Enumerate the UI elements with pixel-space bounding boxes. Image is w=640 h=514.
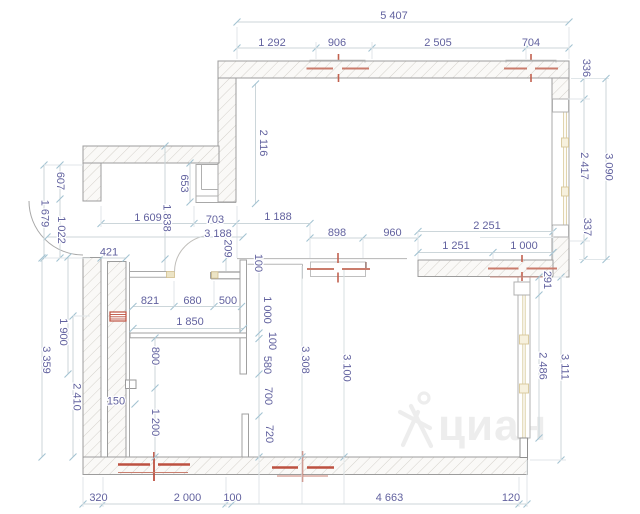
dim line 1850	[130, 325, 248, 332]
window right upper sill bottom	[553, 225, 569, 237]
dim line 2410	[70, 313, 91, 461]
svg-text:898: 898	[328, 227, 346, 239]
red radiator panel	[110, 312, 126, 321]
niche in wall	[196, 165, 218, 203]
partition corridor-bedroom left part	[130, 271, 167, 273]
svg-text:2 410: 2 410	[71, 383, 83, 411]
dim line 3308	[299, 266, 306, 504]
svg-text:580: 580	[261, 356, 273, 374]
svg-text:421: 421	[100, 247, 118, 259]
wall left upper pier	[83, 163, 101, 201]
wall left lower inner shaft	[108, 262, 127, 458]
wall right lower segment	[552, 237, 569, 277]
dim line 3100	[341, 270, 348, 504]
svg-text:337: 337	[581, 218, 593, 236]
red window marker band A	[307, 253, 370, 283]
window lower right glazing	[522, 295, 524, 438]
svg-text:2 116: 2 116	[257, 130, 269, 157]
svg-text:720: 720	[263, 425, 275, 443]
svg-text:1 838: 1 838	[161, 204, 173, 232]
svg-text:5 407: 5 407	[380, 10, 408, 22]
wall pilaster box	[126, 380, 137, 389]
red window marker top B	[504, 54, 558, 82]
dim line bottom chain 320/2000/100/4663/120	[80, 460, 531, 508]
svg-text:960: 960	[383, 227, 401, 239]
door frame right tan	[212, 272, 219, 278]
svg-text:800: 800	[149, 347, 161, 365]
wall top exterior	[218, 61, 569, 78]
svg-text:1 022: 1 022	[55, 216, 67, 244]
wall right upper corner	[552, 78, 569, 99]
svg-text:3 188: 3 188	[204, 228, 232, 240]
dim line 3188	[44, 234, 247, 241]
wall band balcony hatched	[418, 260, 553, 277]
dim line right 3090	[603, 75, 610, 263]
wall left lower outer	[83, 258, 101, 458]
svg-text:3 308: 3 308	[299, 346, 311, 374]
partition vertical kitchen	[240, 260, 247, 374]
band top edge line	[237, 258, 407, 260]
svg-text:3 359: 3 359	[40, 346, 52, 374]
window right upper sill top	[553, 99, 569, 112]
svg-text:1 188: 1 188	[264, 211, 292, 223]
dim line 209	[223, 238, 230, 271]
svg-text:4 663: 4 663	[376, 492, 404, 504]
svg-text:1 251: 1 251	[442, 240, 470, 252]
svg-text:1 000: 1 000	[261, 296, 273, 324]
svg-text:3 100: 3 100	[341, 354, 353, 382]
door arc entrance	[29, 201, 83, 255]
dim line 1679	[41, 162, 84, 262]
svg-text:653: 653	[178, 174, 190, 192]
svg-text:320: 320	[89, 492, 107, 504]
window lower right sill top	[514, 282, 530, 295]
dim line 5407 top	[234, 19, 573, 26]
window right upper glazing	[563, 112, 565, 225]
wall step horizontal	[83, 146, 219, 163]
partition vertical stub lower	[242, 414, 249, 457]
red window marker top A	[307, 54, 370, 82]
svg-text:100: 100	[223, 492, 241, 504]
svg-text:607: 607	[54, 172, 66, 190]
svg-text:1 900: 1 900	[57, 318, 69, 346]
svg-text:циан: циан	[438, 401, 547, 450]
partition horizontal mid-left room	[130, 333, 247, 338]
red window marker band B right	[488, 255, 557, 281]
wall stub at interior door	[211, 271, 242, 273]
svg-text:1 200: 1 200	[149, 409, 161, 437]
dim line right 336/2417/337	[568, 75, 610, 263]
dim line 1838	[162, 143, 169, 272]
band sill line 100 thick	[248, 263, 303, 265]
svg-text:680: 680	[183, 295, 201, 307]
wall bottom edge of upper-left assembly	[196, 202, 236, 204]
svg-text:100: 100	[252, 254, 264, 272]
bedroom wall face line	[129, 262, 131, 457]
svg-text:3 111: 3 111	[559, 354, 571, 380]
svg-text:1 609: 1 609	[134, 212, 162, 224]
dim line 2116	[252, 81, 259, 208]
svg-text:2 000: 2 000	[174, 492, 202, 504]
svg-text:700: 700	[262, 387, 274, 405]
svg-text:1 679: 1 679	[39, 200, 51, 228]
svg-text:1 000: 1 000	[510, 240, 538, 252]
svg-text:336: 336	[580, 59, 592, 77]
svg-text:906: 906	[328, 37, 346, 49]
dim line 3359	[39, 255, 46, 461]
svg-text:704: 704	[522, 37, 540, 49]
wall left vertical upper	[218, 78, 236, 202]
svg-text:500: 500	[219, 295, 237, 307]
dim line 653	[187, 160, 194, 206]
svg-text:703: 703	[206, 214, 224, 226]
svg-text:209: 209	[222, 239, 234, 257]
window lower right mullion 2	[520, 384, 529, 393]
svg-text:1 292: 1 292	[258, 37, 286, 49]
dim line 1609/703/1188	[98, 206, 314, 258]
dim line 291/2486	[536, 274, 543, 442]
dim line 1251/1000	[415, 249, 557, 262]
svg-text:2 251: 2 251	[473, 220, 501, 232]
svg-text:1 850: 1 850	[176, 316, 204, 328]
svg-text:150: 150	[107, 396, 125, 408]
dim line 1900	[65, 254, 72, 378]
window right upper mullion 2	[562, 187, 569, 196]
red door marker bottom left	[118, 452, 190, 481]
wall bottom exterior	[83, 457, 528, 475]
svg-text:120: 120	[502, 492, 520, 504]
door frame left tan	[167, 272, 175, 278]
dim line 2251	[415, 226, 557, 259]
dim line 421	[98, 255, 130, 262]
dim line 800/1200	[132, 335, 159, 461]
svg-text:2 505: 2 505	[424, 37, 452, 49]
dim line 607 and 1022	[44, 162, 90, 262]
window lower right mullion 1	[520, 335, 529, 344]
svg-text:291: 291	[541, 271, 553, 289]
svg-text:100: 100	[266, 332, 278, 350]
door arc interior	[175, 236, 212, 273]
svg-text:2 417: 2 417	[578, 152, 590, 180]
svg-text:2 486: 2 486	[537, 352, 549, 380]
red door marker bottom center	[272, 451, 334, 482]
dim line 821/680/500	[130, 281, 246, 310]
dim line top chain 1292/906/2505/704	[234, 27, 573, 59]
window lower right sill bottom	[520, 438, 528, 458]
svg-text:821: 821	[141, 295, 159, 307]
window right upper mullion 1	[562, 138, 569, 147]
dim line 898/960	[307, 235, 422, 259]
window right upper frame	[552, 99, 569, 237]
window band A frame	[311, 262, 366, 277]
dim chain vertical 100/1000/100/580/700/720	[256, 255, 263, 505]
watermark cian logo icon	[400, 393, 431, 446]
window lower right frame	[518, 277, 530, 438]
svg-text:3 090: 3 090	[603, 153, 615, 181]
dim line 3111	[480, 238, 566, 464]
